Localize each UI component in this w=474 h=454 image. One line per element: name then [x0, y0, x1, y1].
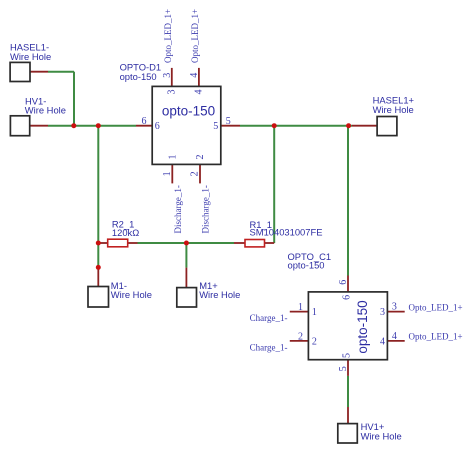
svg-text:5: 5	[226, 116, 231, 127]
svg-text:5: 5	[338, 366, 349, 371]
wire hole HV1+ box	[338, 424, 358, 443]
resistor R1 body	[245, 240, 265, 247]
svg-text:2: 2	[190, 171, 201, 176]
pin stub U2 pin6	[347, 276, 349, 292]
svg-text:4: 4	[380, 337, 385, 348]
op-amp U2 OPTO_C1 body	[308, 292, 387, 360]
wire	[97, 126, 99, 268]
svg-text:3: 3	[162, 73, 173, 78]
pin stub HASEL1-	[30, 71, 48, 73]
pin stub U2 pin5	[347, 360, 349, 376]
svg-text:2: 2	[298, 331, 303, 342]
wire hole M1+ box	[177, 288, 197, 307]
svg-text:opto-150: opto-150	[288, 260, 325, 271]
pin stub R2 right	[128, 242, 138, 244]
pin stub M1+	[185, 268, 187, 288]
svg-text:3: 3	[380, 307, 385, 318]
svg-text:opto-150: opto-150	[162, 104, 215, 119]
junction	[272, 123, 277, 128]
pin stub U2 pin2	[290, 340, 309, 342]
junction	[96, 241, 101, 246]
pin stub R1 right	[265, 242, 275, 244]
pin stub U2 pin4	[387, 340, 404, 342]
pin stub HV1-	[30, 125, 48, 127]
svg-text:3: 3	[392, 302, 397, 313]
junction	[96, 265, 101, 270]
resistor R2 body	[108, 239, 128, 247]
wire	[347, 126, 349, 276]
svg-text:120kΩ: 120kΩ	[112, 227, 139, 238]
svg-text:Wire Hole: Wire Hole	[373, 104, 414, 115]
svg-text:Opto_LED_1+: Opto_LED_1+	[409, 302, 463, 312]
wire	[240, 125, 352, 127]
pin stub R1 left	[234, 242, 245, 244]
pin stub U1 pin4	[198, 68, 200, 87]
svg-text:Charge_1-: Charge_1-	[250, 342, 288, 352]
pin stub HV1+	[347, 407, 349, 424]
svg-text:3: 3	[166, 90, 177, 95]
svg-text:Discharge_1-: Discharge_1-	[201, 185, 211, 233]
pin stub R2 left	[98, 242, 107, 244]
svg-text:4: 4	[194, 90, 205, 95]
svg-text:Opto_LED_1+: Opto_LED_1+	[409, 331, 463, 341]
wire hole HASEL1- box	[10, 62, 30, 81]
svg-text:5: 5	[213, 121, 218, 132]
svg-text:4: 4	[189, 73, 200, 78]
pin stub U2 pin1	[290, 311, 309, 313]
svg-text:Wire Hole: Wire Hole	[199, 289, 240, 300]
svg-text:2: 2	[195, 155, 206, 160]
svg-text:opto-150: opto-150	[355, 300, 370, 353]
junction	[184, 241, 189, 246]
wire	[273, 126, 275, 243]
wire hole HV1- box	[10, 116, 29, 136]
op-amp U1 OPTO-D1 body	[152, 86, 221, 164]
svg-text:6: 6	[338, 280, 349, 285]
wire	[73, 72, 75, 126]
svg-text:1: 1	[167, 155, 178, 160]
junction	[71, 123, 76, 128]
wire	[185, 243, 187, 268]
svg-text:6: 6	[142, 116, 147, 127]
svg-text:4: 4	[392, 331, 397, 342]
pin stub U1 pin5	[221, 125, 240, 127]
svg-text:Opto_LED_1+: Opto_LED_1+	[190, 9, 200, 63]
svg-text:1: 1	[312, 307, 317, 318]
wire	[48, 125, 136, 127]
svg-text:Wire Hole: Wire Hole	[10, 51, 51, 62]
wire	[138, 242, 235, 244]
svg-text:5: 5	[341, 353, 352, 358]
pin stub M1-	[97, 267, 99, 286]
pin stub U1 pin6	[136, 125, 152, 127]
svg-text:SM104031007FE: SM104031007FE	[250, 227, 323, 238]
wire	[347, 376, 349, 407]
svg-text:1: 1	[162, 171, 173, 176]
pin stub HASEL1+	[352, 125, 377, 127]
pin stub U1 pin2	[199, 164, 201, 183]
junction	[346, 123, 351, 128]
svg-text:6: 6	[155, 121, 160, 132]
svg-text:1: 1	[298, 302, 303, 313]
junction	[96, 123, 101, 128]
svg-text:Wire Hole: Wire Hole	[361, 431, 402, 442]
pin stub U1 pin1	[171, 164, 173, 183]
pin stub U1 pin3	[171, 68, 173, 87]
svg-text:6: 6	[341, 295, 352, 300]
wire hole HASEL1+ box	[377, 117, 397, 136]
svg-text:Discharge_1-: Discharge_1-	[173, 185, 183, 233]
wire hole M1- box	[88, 287, 109, 308]
svg-text:2: 2	[312, 337, 317, 348]
svg-text:opto-150: opto-150	[120, 71, 157, 82]
svg-text:Opto_LED_1+: Opto_LED_1+	[163, 9, 173, 63]
pin stub U2 pin3	[387, 311, 404, 313]
svg-text:Wire Hole: Wire Hole	[111, 289, 152, 300]
wire	[48, 71, 74, 73]
svg-text:Wire Hole: Wire Hole	[25, 105, 66, 116]
svg-text:Charge_1-: Charge_1-	[250, 313, 288, 323]
